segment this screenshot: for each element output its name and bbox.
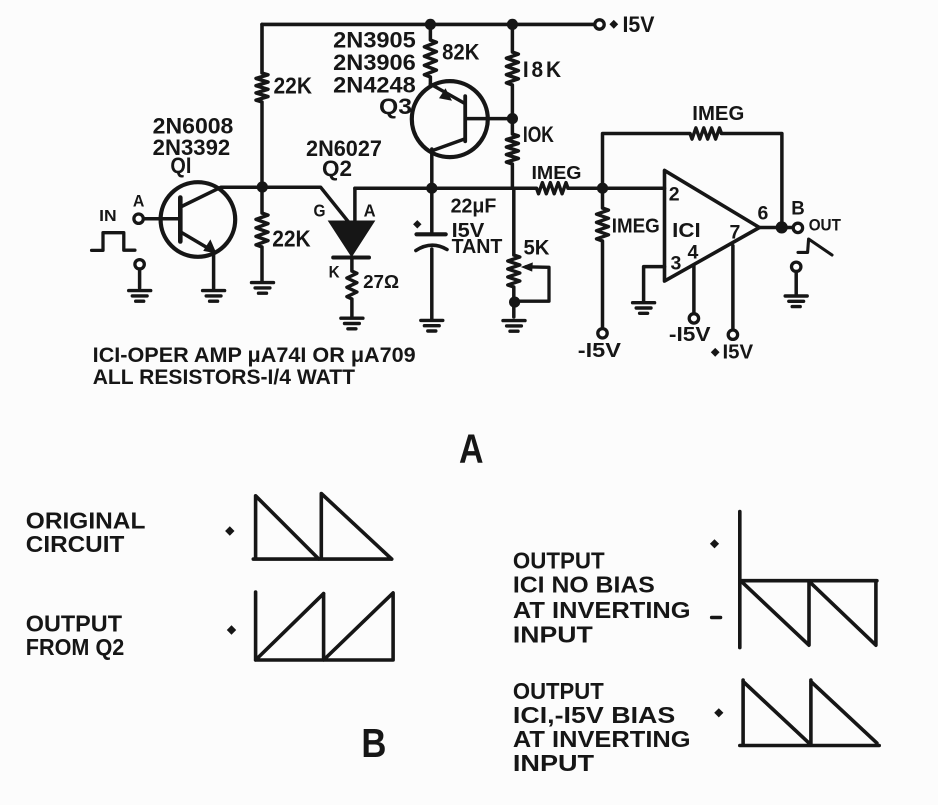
marker - IC1 no bias [712, 616, 721, 619]
wire 18K leads [511, 24, 515, 118]
wire pin 4 [692, 265, 696, 314]
wire 22K to node [260, 102, 264, 187]
waveform output from Q2 ramp [256, 592, 394, 660]
wire 22K lower leads [260, 187, 264, 281]
ground Q2 cathode [341, 318, 363, 329]
svg-text:ICI NO BIAS: ICI NO BIAS [513, 572, 655, 598]
ground Q1 emitter [203, 291, 225, 302]
transistor Q3 [412, 81, 488, 157]
svg-text:IMEG: IMEG [532, 162, 582, 183]
wire node to cap [430, 188, 434, 234]
junction cap node [426, 183, 437, 194]
waveform IC1 -15V bias [740, 680, 879, 745]
terminal pin 4 -15V [689, 314, 698, 323]
resistor 1MEG feedback [690, 128, 722, 139]
resistor 27 ohm [347, 271, 357, 299]
svg-text:4: 4 [688, 242, 699, 264]
svg-text:QI: QI [170, 153, 191, 178]
svg-text:A: A [364, 200, 376, 220]
resistor 22K lower [256, 213, 268, 247]
terminal +15V [595, 20, 604, 29]
svg-text:IMEG: IMEG [692, 103, 744, 125]
polarity + of capacitor [413, 220, 421, 228]
terminal IN node A [134, 214, 143, 223]
terminal OUT node B [793, 223, 802, 232]
svg-text:AT INVERTING: AT INVERTING [513, 726, 691, 752]
wire Q1 base lead [144, 217, 178, 221]
svg-text:22μF: 22μF [451, 195, 497, 218]
wire feedback right [722, 134, 782, 228]
svg-text:ALL RESISTORS-I/4 WATT: ALL RESISTORS-I/4 WATT [93, 365, 355, 389]
wire op-amp output [759, 226, 793, 230]
ground 22K lower [252, 283, 274, 294]
wire pin 3 to ground [644, 267, 665, 301]
wire 5K wiper loop [519, 267, 549, 301]
input pulse waveform symbol [92, 233, 135, 251]
svg-text:-I5V: -I5V [578, 339, 622, 362]
svg-text:B: B [791, 197, 805, 219]
wire +15V supply rail [262, 23, 595, 27]
wire 27ohm leads [350, 258, 354, 317]
svg-text:FROM Q2: FROM Q2 [26, 634, 125, 660]
svg-text:INPUT: INPUT [513, 622, 593, 648]
wire Q3 base lead [467, 117, 507, 121]
wire output ground stub [794, 272, 798, 295]
resistor 22K upper [256, 73, 268, 102]
terminal below IN [135, 260, 144, 269]
ground pin 3 [633, 303, 655, 314]
marker + IC1 -15V bias [714, 708, 723, 717]
resistor 10K [506, 134, 518, 164]
wire cap to ground [430, 249, 434, 319]
junction rail/18K [507, 19, 518, 30]
svg-text:2N3906: 2N3906 [333, 50, 416, 75]
terminal pin 7 +15V [728, 330, 737, 339]
svg-text:22K: 22K [272, 226, 311, 252]
svg-text:22K: 22K [274, 73, 313, 99]
transistor Q1 [161, 182, 236, 257]
svg-text:A: A [459, 426, 484, 472]
wire Q2 anode riser [353, 188, 357, 221]
resistor 1MEG series [537, 183, 569, 194]
svg-text:B: B [361, 720, 386, 766]
svg-text:Q3: Q3 [379, 94, 412, 119]
svg-text:OUTPUT: OUTPUT [513, 548, 605, 574]
svg-text:CIRCUIT: CIRCUIT [26, 531, 124, 557]
svg-text:7: 7 [730, 222, 741, 244]
ground capacitor [421, 320, 443, 331]
wire Q3 collector [432, 139, 465, 188]
svg-text:OUT: OUT [809, 215, 842, 234]
wire 10K leads [511, 119, 515, 189]
svg-text:A: A [133, 191, 145, 210]
svg-text:K: K [329, 262, 341, 281]
svg-text:AT INVERTING: AT INVERTING [513, 597, 691, 623]
svg-text:2N3392: 2N3392 [153, 135, 231, 160]
svg-text:27Ω: 27Ω [363, 271, 399, 292]
wire Q3 emitter diag [430, 84, 464, 103]
wire IN ground stub [138, 269, 142, 288]
svg-text:IOK: IOK [523, 122, 554, 147]
label +15V pin7 [711, 348, 720, 357]
waveform IC1 no bias [740, 512, 877, 648]
Q3 emitter arrowhead (PNP) [439, 88, 452, 101]
svg-text:I8K: I8K [523, 57, 564, 82]
ground output [785, 296, 807, 307]
resistor 82K [424, 40, 436, 77]
capacitor C1 22uF top plate [417, 232, 446, 236]
junction Q3 base node [507, 113, 518, 124]
junction inverting input node [597, 183, 608, 194]
wire rail corner down [260, 24, 264, 73]
ground IN [129, 291, 151, 302]
Q1 emitter arrowhead [203, 239, 216, 253]
ground 5K [503, 321, 525, 332]
waveform original circuit sawtooth [253, 494, 391, 560]
svg-text:I5V: I5V [623, 12, 655, 37]
svg-text:-I5V: -I5V [669, 323, 711, 346]
svg-text:82K: 82K [442, 40, 479, 65]
wire 82K leads [429, 24, 433, 86]
svg-text:2N3905: 2N3905 [333, 28, 416, 53]
svg-text:G: G [314, 200, 326, 220]
Q2 cathode bar [333, 256, 369, 260]
wire anode node to 1MEG [355, 186, 537, 190]
terminal output ground ref [792, 262, 801, 271]
svg-text:OUTPUT: OUTPUT [26, 611, 122, 637]
svg-text:6: 6 [758, 203, 769, 225]
wire feedback left [603, 134, 691, 189]
wire Q1 collector to node to Q2 gate [182, 187, 349, 222]
marker + IC1 no bias [710, 539, 719, 548]
svg-text:INPUT: INPUT [513, 750, 594, 776]
svg-text:ORIGINAL: ORIGINAL [26, 507, 146, 533]
svg-text:3: 3 [671, 252, 682, 274]
svg-text:2: 2 [669, 184, 680, 206]
junction output/feedback [776, 221, 788, 233]
junction node divider [257, 181, 268, 192]
wire 1MEG to op-amp pin 2 [568, 186, 665, 190]
terminal -15V bias [598, 329, 607, 338]
svg-text:ICI,-I5V BIAS: ICI,-I5V BIAS [513, 702, 675, 728]
thyristor Q2 anode triangle [330, 222, 374, 256]
resistor 18K [506, 52, 518, 85]
svg-text:ICI: ICI [672, 220, 701, 242]
op-amp IC1 [665, 170, 760, 281]
wire Q1 emitter [182, 233, 214, 289]
capacitor C1 curved plate [416, 245, 447, 250]
label +15V (top) [609, 20, 618, 29]
junction 5K bottom [509, 297, 520, 308]
svg-text:TANT: TANT [452, 235, 503, 258]
resistor 1MEG to -15V [597, 208, 609, 241]
svg-text:IMEG: IMEG [612, 216, 660, 238]
svg-text:IN: IN [99, 208, 117, 225]
wire 5K leads [512, 188, 516, 317]
svg-text:OUTPUT: OUTPUT [513, 678, 604, 704]
resistor 5K pot [508, 255, 520, 287]
svg-text:Q2: Q2 [322, 156, 352, 181]
svg-text:ICI-OPER AMP μA74I OR μA709: ICI-OPER AMP μA74I OR μA709 [93, 343, 416, 367]
svg-text:5K: 5K [524, 237, 550, 260]
marker + output from Q2 [227, 625, 236, 634]
5K wiper arrowhead [521, 262, 533, 271]
junction rail/82K [425, 19, 436, 30]
svg-text:I5V: I5V [723, 341, 754, 364]
wire pin 7 [731, 246, 735, 330]
output sawtooth glyph [798, 239, 832, 255]
marker + original circuit [225, 526, 234, 535]
wire 1MEG vertical leads [601, 188, 605, 328]
